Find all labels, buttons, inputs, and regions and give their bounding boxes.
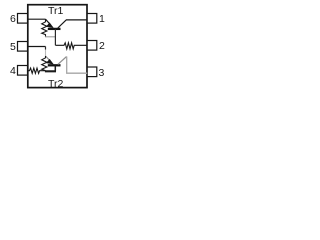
pin 1 box — [87, 14, 97, 24]
wire R2 to base line (jog) — [45, 36, 55, 38]
wire pin6 to emitter node Tr1 — [28, 18, 46, 20]
transistor Q2 emitter arrow (PNP, into base bar) — [46, 59, 53, 64]
transistor Q2 base bar — [48, 64, 61, 66]
pin 3 box — [87, 67, 97, 77]
pin 5 box — [18, 42, 28, 52]
transistor Q2 collector lead — [58, 57, 67, 65]
resistor R2 Tr2 (base-emitter, vertical zigzag) — [42, 56, 47, 71]
package outline — [28, 5, 87, 88]
transistor Q1 base stub down — [54, 29, 56, 45]
svg-text:1: 1 — [99, 13, 105, 25]
transistor Q1 base bar — [48, 28, 61, 30]
transistor Q1 collector lead — [58, 20, 66, 28]
transistor Q2 base stub down — [54, 65, 56, 71]
svg-text:3: 3 — [99, 67, 105, 79]
svg-text:5: 5 — [10, 41, 16, 53]
resistor R1 Tr1 (series base, horizontal zigzag) and wire to pin 2 — [55, 43, 87, 49]
pin 6 box — [18, 14, 28, 24]
transistor Q2 emitter lead — [46, 56, 50, 60]
svg-text:Tr2: Tr2 — [48, 78, 64, 90]
wire Q1 collector to pin 1 — [66, 19, 87, 21]
wire pin5 down (faint part) — [45, 50, 47, 57]
svg-text:Tr1: Tr1 — [48, 5, 64, 17]
pin 4 box — [18, 66, 28, 76]
pin 2 box — [87, 41, 97, 51]
wire Q2 collector down and to pin 3 — [67, 57, 88, 74]
svg-text:2: 2 — [99, 40, 105, 52]
junction wire (R1,R2,base) — [45, 70, 56, 72]
transistor Q1 emitter arrow (PNP, into base bar) — [46, 23, 53, 28]
resistor R2 Tr1 (base-emitter, vertical zigzag) — [42, 19, 47, 37]
svg-text:6: 6 — [10, 13, 16, 25]
resistor R1 Tr2 (series base, horizontal zigzag) from pin 4 — [28, 68, 46, 73]
wire pin5 down to emitter node Tr2 — [45, 47, 47, 50]
svg-text:4: 4 — [10, 65, 16, 77]
transistor Q1 emitter lead — [46, 19, 50, 23]
wire pin5 right — [28, 46, 46, 48]
